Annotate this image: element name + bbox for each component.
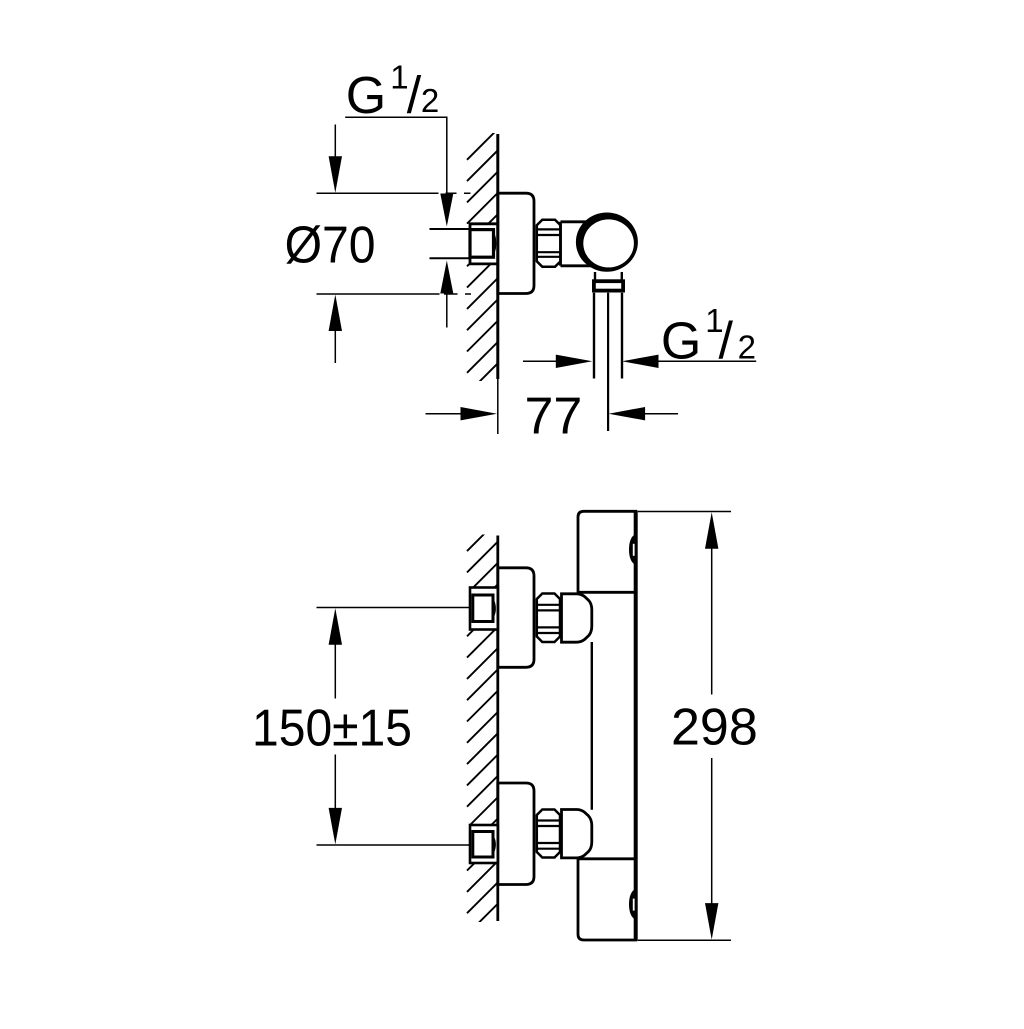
298 dimension line with arrows xyxy=(705,512,718,549)
outlet pipe center line (top view) xyxy=(607,293,609,431)
upper escutcheon (bottom view) xyxy=(498,568,534,668)
wall hatching (top view) xyxy=(467,128,499,416)
lower union dome cap (bottom view) xyxy=(562,810,592,858)
upper inlet nut chamfer arc xyxy=(493,600,495,617)
union hex nut (top view) xyxy=(537,220,561,267)
svg-text:2: 2 xyxy=(738,329,756,366)
upper union dome cap (bottom view) xyxy=(562,594,592,642)
298 dimension top extension line xyxy=(638,511,731,513)
298 dimension bottom extension line xyxy=(638,939,731,941)
svg-text:G: G xyxy=(346,67,386,125)
svg-text:/: / xyxy=(407,67,422,125)
svg-text:298: 298 xyxy=(671,699,758,757)
valve body front edge (bottom view) xyxy=(634,511,638,940)
77 dimension line right segment xyxy=(609,407,646,420)
thread dimension lower arrow at wall xyxy=(440,261,453,294)
lower inlet nut inner square xyxy=(473,832,493,858)
wall face line (top view) xyxy=(496,134,499,379)
lower screw bump on front edge xyxy=(629,889,636,920)
upper inlet nut inner square xyxy=(473,595,493,622)
thread dimension upper arrow at wall xyxy=(440,194,453,227)
flange diameter dimension lower arrow xyxy=(329,295,342,332)
dimension extension line lower (flange bottom) xyxy=(317,293,472,295)
outlet pipe dimension line right segment xyxy=(622,355,659,368)
thermostat valve circle (top view) xyxy=(576,213,638,272)
150 dimension line with arrows xyxy=(329,608,342,645)
upper union hex nut (bottom view) xyxy=(537,594,560,643)
77 dimension line left segment xyxy=(426,413,466,415)
150 dimension lower extension line xyxy=(317,844,470,846)
valve body mid section rear edge xyxy=(591,642,593,810)
supply elbow chamfer arc (top view) xyxy=(494,233,496,254)
valve body top cap (bottom view) xyxy=(578,511,636,592)
wall face line (bottom view) xyxy=(496,536,499,922)
outlet neck below circle (top view) xyxy=(595,272,622,280)
svg-text:2: 2 xyxy=(421,82,439,119)
wall face extension line down to 77 dimension xyxy=(497,379,499,434)
svg-text:Ø70: Ø70 xyxy=(285,217,376,275)
svg-text:77: 77 xyxy=(525,387,583,445)
outlet pipe dimension line left segment xyxy=(523,360,560,362)
supply elbow inner square (top view) xyxy=(470,230,494,258)
lower inlet nut chamfer arc xyxy=(493,837,495,853)
lower inlet nut outer (bottom view) xyxy=(470,825,498,863)
150 dimension upper extension line xyxy=(317,607,470,609)
lower escutcheon (bottom view) xyxy=(498,783,534,885)
outlet pipe G 1/2 (top view) xyxy=(594,293,622,379)
upper inlet nut outer (bottom view) xyxy=(470,588,498,630)
svg-text:150±15: 150±15 xyxy=(252,699,412,757)
dimension extension line upper (flange top) xyxy=(317,192,471,194)
lower union hex nut (bottom view) xyxy=(537,810,560,858)
outlet collar (top view) xyxy=(594,281,623,290)
svg-text:1: 1 xyxy=(390,59,408,96)
valve body (top view) xyxy=(561,222,601,266)
supply elbow outer profile (top view) xyxy=(470,224,498,264)
escutcheon flange (top view) xyxy=(498,193,534,293)
svg-text:/: / xyxy=(719,312,734,370)
flange diameter dimension upper arrow xyxy=(329,156,342,193)
svg-text:G: G xyxy=(661,313,701,371)
wall hatching (bottom view) xyxy=(467,519,499,956)
supply pipe behind wall (top view) xyxy=(430,229,471,258)
leader line under G 1/2 top label xyxy=(345,117,447,193)
valve body bottom cap (bottom view) xyxy=(578,859,636,940)
upper screw bump on front edge xyxy=(629,534,636,565)
